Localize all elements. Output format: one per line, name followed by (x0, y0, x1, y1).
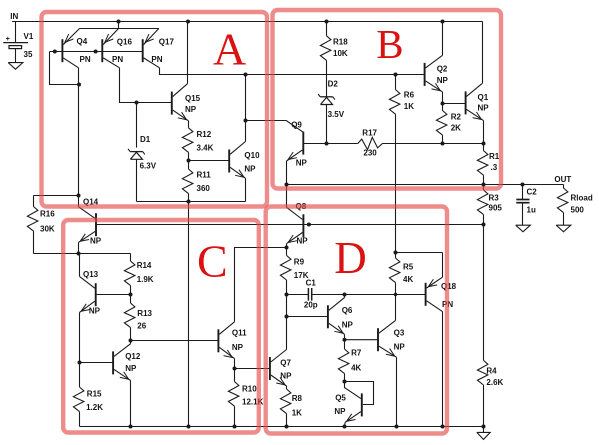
junction bottom rail x=188.5 (187, 425, 191, 429)
wire Q15 collector to top rail (187, 22, 189, 84)
wire Q12 collector riser (130, 341, 132, 344)
svg-text:Q17: Q17 (159, 37, 175, 46)
svg-text:C1: C1 (306, 278, 317, 287)
wire Q10 collector riser (245, 75, 247, 142)
transistor Q13 (NPN mirrored) (95, 283, 97, 306)
junction OUT rail / R1-R3 (482, 183, 486, 187)
wire Q7 collector vertical (286, 317, 288, 350)
wire Q10 base (189, 160, 230, 162)
junction Q14 collector node (77, 194, 81, 198)
junction R7 bottom / Q5 (343, 380, 347, 384)
junction C1 line / R5 / Q3 collector (394, 293, 397, 296)
svg-text:Q9: Q9 (291, 120, 302, 129)
svg-text:B: B (376, 21, 403, 67)
svg-text:R4: R4 (486, 367, 497, 376)
wire riser top rail to emitter rail (118, 22, 120, 29)
junction R12/R11/Q10 base (187, 159, 191, 163)
junction Q13 emitter / R15 / Q12 base (78, 361, 82, 365)
svg-text:Q2: Q2 (437, 65, 448, 74)
wire Q7 base link (235, 368, 270, 370)
junction OUT rail / C2 (521, 183, 525, 187)
junction top rail / Q2 collector (441, 20, 445, 24)
svg-text:R15: R15 (87, 390, 102, 399)
svg-text:4K: 4K (351, 364, 361, 373)
svg-text:360: 360 (197, 184, 211, 193)
svg-text:4K: 4K (403, 275, 413, 284)
resistor R16 (33, 196, 35, 207)
svg-text:OUT: OUT (554, 175, 571, 184)
svg-text:.3: .3 (491, 163, 498, 172)
transistor Q3 (NPN) (377, 328, 379, 351)
transistor Q1 (NPN) (465, 91, 467, 114)
wire Q13 emitter drop (79, 312, 81, 362)
wire Q1 emitter drop (483, 121, 485, 144)
junction bottom rail x=442.5 (441, 425, 445, 429)
svg-text:R10: R10 (242, 385, 257, 394)
resistor R14 (130, 254, 132, 262)
svg-text:35: 35 (24, 50, 33, 59)
wire R17 line right segment (382, 143, 483, 145)
ground main (477, 432, 490, 439)
ground for C2 (516, 225, 531, 232)
svg-text:Q16: Q16 (117, 37, 133, 46)
wire output rail (287, 184, 564, 186)
resistor R9 (286, 248, 288, 256)
transistor Q15 (NPN) (171, 92, 173, 115)
svg-text:NP: NP (334, 407, 346, 416)
resistor R18 (326, 22, 328, 36)
junction top rail / Q15 collector (186, 20, 190, 24)
transistor Q16 (PNP) (101, 39, 103, 62)
junction feedback line at Q8 base (307, 223, 311, 227)
wire Q11 emitter drop (234, 359, 236, 369)
wire Q3 base link (345, 339, 379, 341)
svg-text:V1: V1 (24, 32, 34, 41)
svg-text:2.6K: 2.6K (486, 378, 503, 387)
svg-text:D2: D2 (328, 80, 339, 89)
wire Q9 collector line (246, 121, 304, 133)
wire Q4 base-collector tie loop (50, 52, 80, 85)
svg-text:NP: NP (280, 372, 292, 381)
wire Q16 collector to D1 and Q15 base (120, 68, 172, 103)
junction Q14 emitter node (77, 252, 81, 256)
svg-text:6.3V: 6.3V (140, 161, 157, 170)
wire PNP base rail (50, 51, 143, 53)
svg-text:NP: NP (296, 159, 308, 168)
svg-text:R18: R18 (333, 37, 348, 46)
wire Q5 emitter drop (344, 422, 347, 426)
transistor Q11 (NPN) (217, 329, 219, 352)
wire Q18 emitter riser (442, 253, 444, 278)
svg-text:Q10: Q10 (244, 151, 260, 160)
wire Q9 emitter drop to OUT rail (286, 161, 288, 185)
junction base rail loop (53, 50, 57, 54)
svg-text:NP: NP (185, 105, 197, 114)
wire Q17 collector to Q2 base (160, 68, 425, 75)
wire box A bottom rail (D1/R11/Q10 node) (137, 201, 246, 203)
wire PNP emitter rail (80, 28, 159, 30)
wire Q2 collector riser (442, 22, 444, 56)
svg-text:NP: NP (232, 343, 244, 352)
junction Q17 line / Q10 collector (244, 73, 248, 77)
wire Q3 emitter drop (396, 357, 398, 426)
wire Q14 collector drop (78, 196, 80, 207)
svg-text:R9: R9 (294, 257, 305, 266)
transistor Q14 (NPN mirrored) (95, 213, 97, 236)
wire Q1 base link (443, 103, 466, 105)
svg-text:Q3: Q3 (394, 328, 405, 337)
wire R4 to ground (483, 427, 485, 433)
svg-text:IN: IN (10, 12, 18, 21)
svg-text:Rload: Rload (571, 194, 593, 203)
resistor R15 (79, 363, 81, 388)
svg-text:1K: 1K (404, 102, 414, 111)
wire Q2 emitter drop (442, 92, 444, 104)
svg-text:3.5V: 3.5V (328, 110, 345, 119)
wire C1 to Q18 base (312, 294, 426, 296)
resistor R10 (234, 369, 236, 382)
wire R5/R6 vertical through rails (395, 144, 397, 253)
wire Q7 emitter drop (286, 386, 288, 389)
wire top rail right drop to Q1 collector (482, 22, 484, 84)
ground for V1 (8, 63, 23, 70)
junction bottom rail x=483.5 (482, 425, 486, 429)
svg-text:PN: PN (80, 55, 91, 64)
transistor Q7 (NPN) (269, 357, 271, 380)
capacitor C2 (522, 185, 524, 200)
junction bottom rail x=130.5 (129, 425, 133, 429)
wire Q9 base to D2/R17 (303, 143, 326, 145)
resistor R17 (horizontal) (358, 137, 383, 149)
diode D1 (zener) lead (136, 103, 138, 148)
svg-text:R11: R11 (197, 170, 212, 179)
svg-text:Q7: Q7 (280, 359, 291, 368)
resistor R4 (477, 360, 488, 385)
transistor Q2 (NPN) (424, 63, 426, 86)
resistor R7 (344, 340, 346, 349)
wire R13 node to Q11 base (131, 340, 219, 342)
svg-text:Q15: Q15 (185, 94, 201, 103)
junction bottom rail x=234.5 (233, 425, 237, 429)
junction bottom rail x=344.5 (343, 425, 347, 429)
resistor R12 (188, 121, 190, 128)
svg-text:D1: D1 (140, 135, 151, 144)
region box A (42, 12, 268, 207)
junction R14/R13/Q13 base (129, 293, 133, 297)
svg-text:R12: R12 (197, 130, 212, 139)
region box B (273, 10, 502, 189)
resistor R11 (188, 161, 190, 170)
junction feedback line at R3/R4 (482, 223, 486, 227)
junction OUT rail / Q9-Q8 (285, 183, 289, 187)
svg-text:1.2K: 1.2K (86, 403, 103, 412)
wire R16 top link (34, 195, 79, 197)
wire Q6 collector riser (344, 295, 346, 298)
svg-text:Q11: Q11 (232, 329, 247, 338)
transistor Q10 (NPN) (228, 150, 230, 173)
transistor Q4 (PNP) (61, 39, 63, 62)
transistor Q6 (NPN) (327, 305, 329, 328)
svg-text:NP: NP (437, 76, 449, 85)
junction bottom rail x=396.5 (395, 425, 399, 429)
svg-text:R16: R16 (40, 210, 55, 219)
wire R16 bottom link / Q14 emitter node (34, 253, 131, 255)
svg-text:NP: NP (342, 321, 354, 330)
svg-text:NP: NP (394, 343, 406, 352)
wire Q12 base (80, 362, 114, 364)
junction R9 bottom / C1 / Q7 collector (285, 293, 289, 297)
capacitor C1 (287, 294, 309, 296)
wire middle vertical R11 node to bottom rail (188, 202, 190, 427)
svg-text:Q4: Q4 (77, 37, 88, 46)
svg-text:R3: R3 (489, 193, 500, 202)
svg-text:1K: 1K (292, 409, 302, 418)
diode D1 (zener) symbol (130, 151, 143, 153)
svg-text:30K: 30K (40, 224, 55, 233)
junction D1 top (135, 101, 139, 105)
svg-text:A: A (213, 24, 246, 75)
ground for Rload (556, 225, 571, 232)
svg-text:230: 230 (363, 149, 377, 158)
junction D2 / R17 line (325, 142, 329, 146)
wire left vertical Q4 collector to Q14 node (78, 85, 80, 196)
resistor R3 (483, 185, 485, 191)
junction Q10 collector / Q9 line (244, 119, 248, 123)
junction R13 bottom / Q12 collector (129, 339, 133, 343)
junction R5 top / Q18 emitter line (394, 251, 398, 255)
svg-text:1u: 1u (527, 205, 536, 214)
transistor Q9 (NPN mirrored) (302, 132, 304, 155)
svg-text:905: 905 (489, 204, 503, 213)
wire Q6 base link (287, 316, 328, 318)
junction R17 line / R1 top (482, 142, 486, 146)
wire Q12 emitter drop (130, 380, 132, 426)
svg-text:C2: C2 (527, 187, 538, 196)
junction R17 line / R2 bottom (441, 142, 445, 146)
wire R17 line left segment (327, 143, 358, 145)
wire Q18 collector drop (442, 312, 444, 427)
resistor R13 (130, 295, 132, 304)
svg-text:Q6: Q6 (342, 306, 353, 315)
junction Q8 emitter node (285, 246, 289, 250)
resistor R1 (483, 144, 485, 151)
junction Q4 collector loop (77, 83, 81, 87)
junction R11 bottom / middle vertical (187, 200, 191, 204)
svg-text:PN: PN (112, 55, 123, 64)
svg-text:Q12: Q12 (125, 352, 141, 361)
svg-text:R17: R17 (362, 128, 377, 137)
svg-text:+: + (6, 36, 10, 43)
svg-text:R2: R2 (451, 112, 462, 121)
wire Q3 collector riser (395, 295, 397, 321)
svg-text:26: 26 (137, 321, 146, 330)
svg-text:500: 500 (571, 206, 585, 215)
wire feedback line Q14 base to R3 bottom (96, 224, 484, 226)
junction Q17 line / R6 (394, 73, 398, 77)
resistor R2 (442, 104, 444, 111)
wire Q8 collector riser (286, 185, 288, 208)
wire bottom ground rail (80, 426, 484, 428)
wire Q13 collector riser (79, 254, 81, 277)
svg-text:10K: 10K (333, 49, 348, 58)
wire Q11 collector riser to Q8 emitter node (235, 248, 287, 322)
transistor Q8 (NPN mirrored) (302, 214, 304, 237)
svg-text:3.4K: 3.4K (197, 143, 214, 152)
diode D2 (zener) symbol (320, 96, 333, 98)
svg-text:R6: R6 (404, 91, 415, 100)
svg-text:R1: R1 (489, 152, 500, 161)
svg-text:R5: R5 (403, 263, 414, 272)
junction Q6 emitter / R7 / Q3 base (343, 338, 347, 342)
svg-text:NP: NP (297, 236, 309, 245)
svg-text:2K: 2K (451, 123, 461, 132)
transistor Q12 (NPN) (112, 351, 114, 374)
wire D2 to Q9 base node (326, 105, 328, 144)
wire R5 node to Q18 emitter (396, 252, 443, 254)
region box C (63, 220, 259, 433)
junction top rail / R18 (325, 20, 329, 24)
resistor R6 (395, 75, 397, 90)
svg-text:NP: NP (244, 164, 256, 173)
svg-text:PN: PN (151, 55, 162, 64)
wire Q5 base loop (345, 382, 374, 405)
voltage source V1 lead (15, 22, 17, 43)
svg-text:1.9K: 1.9K (137, 275, 154, 284)
svg-text:NP: NP (125, 364, 137, 373)
svg-text:NP: NP (89, 307, 101, 316)
svg-text:R14: R14 (137, 261, 152, 270)
svg-text:D: D (334, 233, 367, 283)
svg-text:Q5: Q5 (335, 393, 346, 402)
wire Q7 collector riser (286, 295, 288, 317)
resistor R8 (280, 389, 291, 414)
junction bottom rail x=286.5 (285, 425, 289, 429)
junction top rail / PNP emitters (117, 20, 121, 24)
wire Q6 emitter drop (344, 334, 346, 339)
voltage source V1 battery symbol (3, 42, 28, 44)
wire Q4 collector drop (78, 68, 80, 85)
junction base rail mid (94, 50, 98, 54)
svg-text:C: C (197, 235, 228, 286)
wire Q14 emitter drop (78, 242, 80, 253)
svg-text:20p: 20p (304, 300, 318, 309)
resistor Rload (563, 185, 565, 189)
transistor Q5 (NPN mirrored, diode connected) (361, 393, 363, 416)
svg-text:Q13: Q13 (83, 270, 99, 279)
wire Q10 emitter drop (245, 178, 247, 201)
region box D (266, 207, 447, 434)
wire R3 to R4 (483, 225, 485, 361)
transistor Q17 (PNP) (142, 39, 144, 62)
junction Q7 collector / Q6 base (285, 315, 289, 319)
wire top supply rail (12, 21, 483, 23)
wire D1 to box A bottom rail (136, 159, 138, 201)
resistor R5 (395, 283, 397, 295)
svg-text:R7: R7 (351, 349, 362, 358)
junction Q2 emitter / R2 / Q1 base (441, 102, 445, 106)
junction Q11 emitter / R10 / Q7 base (233, 367, 237, 371)
wire Q13 base (96, 294, 131, 296)
junction C1 line / Q6 collector (343, 293, 347, 297)
svg-text:R13: R13 (137, 309, 152, 318)
svg-text:NP: NP (90, 237, 102, 246)
transistor Q18 (PNP) (425, 283, 427, 306)
svg-text:Q1: Q1 (478, 93, 489, 102)
svg-text:R8: R8 (292, 394, 303, 403)
svg-text:NP: NP (478, 104, 490, 113)
wire Q8 emitter drop (286, 244, 288, 248)
